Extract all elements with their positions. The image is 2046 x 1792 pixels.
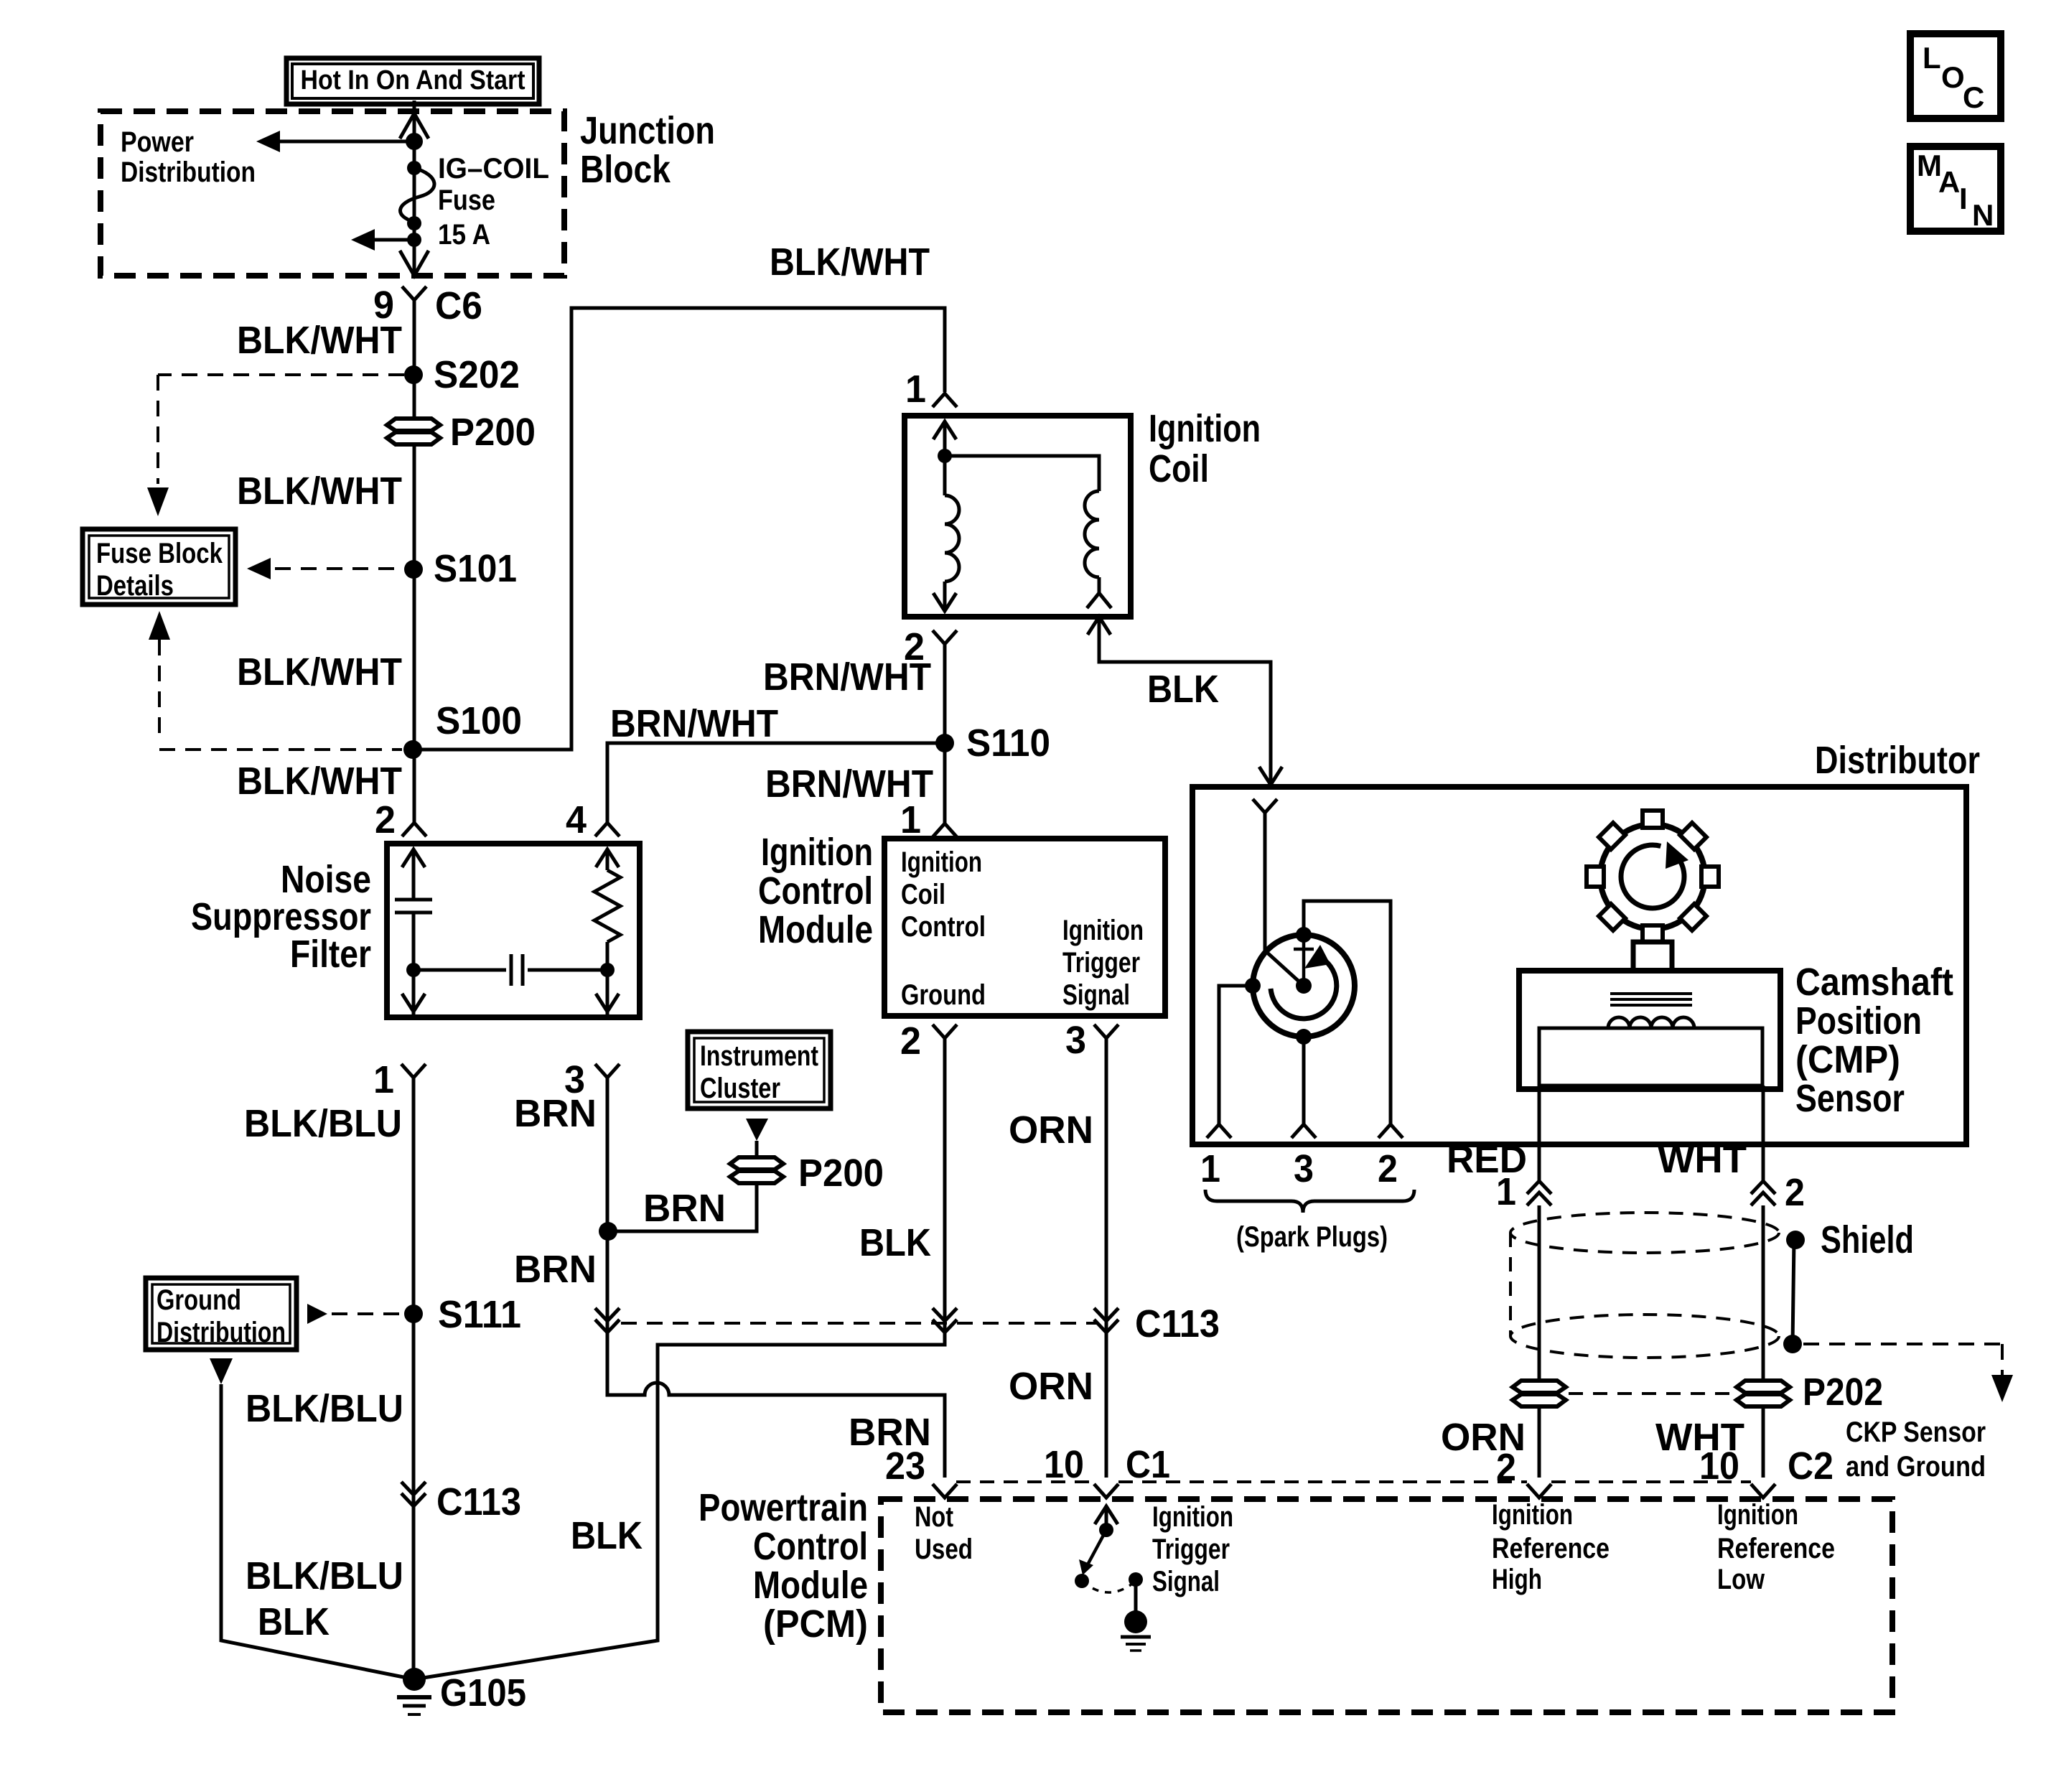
svg-text:BRN: BRN bbox=[514, 1248, 597, 1291]
svg-text:Control: Control bbox=[758, 869, 873, 913]
wire BRN/WHT S110 to filter pin 4 bbox=[607, 743, 945, 823]
svg-text:Shield: Shield bbox=[1821, 1218, 1914, 1261]
svg-text:BLK: BLK bbox=[571, 1514, 643, 1557]
arrow down CKP sensor and ground bbox=[1991, 1375, 2013, 1402]
svg-text:C113: C113 bbox=[436, 1480, 521, 1523]
svg-text:S202: S202 bbox=[434, 353, 520, 396]
svg-text:BLK/WHT: BLK/WHT bbox=[237, 470, 402, 513]
svg-text:Not: Not bbox=[915, 1501, 953, 1533]
wire to PCM internal ground bbox=[1134, 1579, 1138, 1611]
coil primary winding bbox=[945, 495, 959, 582]
arrow to Power Distribution bbox=[256, 131, 280, 152]
wire BLK/WHT C6 to S202 bbox=[413, 300, 416, 419]
svg-text:BRN/WHT: BRN/WHT bbox=[610, 702, 778, 745]
filter internal arrow up pin 4 bbox=[596, 849, 619, 867]
svg-text:(PCM): (PCM) bbox=[763, 1602, 868, 1646]
svg-text:Trigger: Trigger bbox=[1062, 947, 1140, 979]
svg-text:Coil: Coil bbox=[901, 879, 945, 910]
distributor box bbox=[1192, 787, 1966, 1144]
rotor circle bbox=[1253, 935, 1355, 1037]
shield cylinder left wall dashed bbox=[1509, 1233, 1512, 1336]
wire BLK/BLU filter pin 1 down to G105 bbox=[412, 1078, 416, 1679]
svg-text:P200: P200 bbox=[450, 411, 536, 454]
svg-text:BLK: BLK bbox=[859, 1221, 931, 1264]
svg-text:Control: Control bbox=[901, 911, 986, 943]
fork spark plug terminal 1 bbox=[1207, 1124, 1231, 1138]
connector C113 chevrons on BRN wire bbox=[595, 1308, 620, 1321]
svg-text:Ignition: Ignition bbox=[1717, 1499, 1798, 1531]
arrow down to power distribution detail bbox=[147, 487, 169, 516]
ignition coil box bbox=[905, 416, 1131, 617]
svg-text:and Ground: and Ground bbox=[1846, 1451, 1986, 1483]
arrow from Instrument Cluster down bbox=[746, 1119, 768, 1141]
fork spark plug terminal 3 bbox=[1291, 1124, 1316, 1138]
connector C113 on left wire bbox=[401, 1482, 426, 1495]
svg-text:2: 2 bbox=[1785, 1171, 1805, 1214]
arrow from Ground Distribution box down bbox=[210, 1358, 233, 1384]
svg-text:2: 2 bbox=[1378, 1147, 1398, 1190]
svg-text:Module: Module bbox=[753, 1564, 868, 1607]
coil secondary fork terminal bbox=[1087, 593, 1111, 608]
svg-text:Ground: Ground bbox=[901, 979, 986, 1011]
svg-text:3: 3 bbox=[1294, 1147, 1314, 1190]
svg-text:Power: Power bbox=[121, 126, 194, 158]
pass-through connector P202 right bbox=[1737, 1381, 1790, 1393]
svg-text:Signal: Signal bbox=[1062, 979, 1130, 1011]
svg-text:Ignition: Ignition bbox=[1492, 1499, 1573, 1531]
series capacitor in filter bbox=[414, 969, 506, 972]
svg-text:CKP Sensor: CKP Sensor bbox=[1846, 1417, 1986, 1448]
fuse IG-COIL 15A bbox=[407, 161, 421, 175]
ground G105 bbox=[403, 1668, 426, 1691]
svg-text:N: N bbox=[1972, 198, 1994, 232]
dashed link Fuse Block Details to S100 bbox=[149, 611, 170, 640]
svg-text:1: 1 bbox=[1496, 1170, 1516, 1213]
label box Instrument Cluster bbox=[688, 1032, 831, 1109]
svg-text:ORN: ORN bbox=[1009, 1109, 1093, 1152]
pass-through connector P202 left bbox=[1513, 1381, 1566, 1393]
svg-text:4: 4 bbox=[566, 798, 587, 841]
dashed arrow Ground Distribution to S111 bbox=[307, 1304, 327, 1324]
wire pin2 down to P202 bbox=[1762, 1205, 1765, 1381]
CMP inner rectangle bbox=[1539, 1028, 1762, 1086]
svg-text:P202: P202 bbox=[1803, 1371, 1883, 1414]
connector fork filter pin 1 bbox=[401, 1064, 426, 1078]
node power distribution tap bbox=[406, 133, 423, 150]
svg-text:S110: S110 bbox=[966, 722, 1050, 765]
svg-text:Sensor: Sensor bbox=[1795, 1077, 1905, 1120]
gear rotation arc with arrow bbox=[1621, 845, 1684, 908]
filter internal junction right bbox=[600, 963, 615, 977]
svg-text:G105: G105 bbox=[440, 1671, 526, 1714]
svg-text:Cluster: Cluster bbox=[700, 1073, 780, 1104]
CMP core lines bbox=[1610, 992, 1692, 995]
splice S202 bbox=[404, 365, 423, 384]
svg-text:Coil: Coil bbox=[1149, 447, 1209, 490]
shield bottom dot bbox=[1783, 1335, 1802, 1353]
svg-text:Instrument: Instrument bbox=[700, 1040, 818, 1072]
svg-text:1: 1 bbox=[373, 1058, 394, 1101]
MAIN reference box bbox=[1910, 146, 2001, 231]
arrow to Fuse Block Details bbox=[351, 229, 375, 251]
svg-text:2: 2 bbox=[1496, 1446, 1516, 1489]
svg-text:Suppressor: Suppressor bbox=[191, 895, 371, 938]
switch blade with arrowhead bbox=[1086, 1530, 1106, 1567]
connector C113 chevrons on ORN wire bbox=[1094, 1308, 1118, 1321]
filter internal arrow down pin 3 bbox=[596, 994, 619, 1012]
connector fork PCM ignition reference low bbox=[1751, 1484, 1775, 1498]
wire to Fuse Block Details arrow bbox=[362, 238, 414, 242]
svg-text:Distribution: Distribution bbox=[121, 157, 256, 188]
svg-text:Ignition: Ignition bbox=[1062, 915, 1144, 946]
svg-text:Filter: Filter bbox=[290, 933, 371, 976]
connector fork PCM pin 23 bbox=[933, 1484, 957, 1498]
wire to Power Distribution arrow bbox=[267, 140, 414, 144]
svg-text:Noise: Noise bbox=[281, 858, 371, 901]
svg-text:(Spark Plugs): (Spark Plugs) bbox=[1236, 1221, 1388, 1253]
svg-text:BLK/BLU: BLK/BLU bbox=[246, 1387, 403, 1430]
connector fork ICM pin 3 bbox=[1094, 1025, 1118, 1038]
wire pin1 down to P202 bbox=[1538, 1205, 1541, 1381]
label box Ground Distribution bbox=[146, 1278, 296, 1350]
wire BLK coil secondary to distributor bbox=[1088, 617, 1111, 635]
svg-text:Ignition: Ignition bbox=[1152, 1501, 1233, 1533]
filter internal arrow down pin 1 bbox=[402, 994, 425, 1012]
svg-text:Junction: Junction bbox=[580, 109, 715, 152]
splice S101 bbox=[404, 560, 423, 579]
connector fork coil pin 2 bbox=[933, 630, 957, 644]
splice on BRN wire bbox=[599, 1222, 617, 1241]
svg-text:2: 2 bbox=[375, 798, 396, 841]
svg-text:C113: C113 bbox=[1135, 1302, 1220, 1345]
svg-text:Signal: Signal bbox=[1152, 1566, 1220, 1597]
wire rotor top to spark plug 2 bbox=[1304, 901, 1391, 1124]
svg-text:C6: C6 bbox=[435, 284, 482, 327]
PCM ignition trigger switch arrow bbox=[1095, 1506, 1118, 1524]
switch pivot dot bbox=[1099, 1523, 1113, 1537]
shield link wire bbox=[1793, 1240, 1794, 1344]
svg-text:BLK/WHT: BLK/WHT bbox=[237, 319, 402, 362]
arrowhead up into Hot box bbox=[400, 113, 429, 139]
distributor cap terminal fork bbox=[1253, 799, 1277, 813]
coil internal junction bbox=[938, 449, 952, 463]
svg-text:Fuse: Fuse bbox=[438, 185, 495, 216]
svg-text:High: High bbox=[1492, 1564, 1542, 1595]
svg-text:BLK/WHT: BLK/WHT bbox=[770, 241, 930, 284]
wire BLK/WHT branch S100 to ignition coil pin 1 bbox=[413, 308, 945, 750]
svg-text:P200: P200 bbox=[798, 1152, 884, 1195]
gear to CMP sensor neck bbox=[1633, 942, 1672, 971]
svg-text:Camshaft: Camshaft bbox=[1795, 961, 1953, 1004]
wire rotor left to spark plug 1 bbox=[1219, 986, 1253, 1124]
PCM internal ground symbol bbox=[1124, 1610, 1147, 1633]
svg-text:Used: Used bbox=[915, 1534, 973, 1565]
wire rotor bottom to spark plug 3 bbox=[1302, 1037, 1306, 1124]
svg-text:1: 1 bbox=[1200, 1147, 1220, 1190]
svg-text:IG–COIL: IG–COIL bbox=[438, 153, 549, 185]
splice S100 bbox=[403, 740, 422, 759]
wire WHT CMP right down bbox=[1762, 1086, 1765, 1181]
resistor R in filter bbox=[606, 849, 609, 870]
shield dashed cylinder top ellipse bbox=[1510, 1213, 1779, 1253]
wire P200 to BRN splice bbox=[608, 1183, 757, 1231]
svg-text:S100: S100 bbox=[436, 699, 522, 742]
svg-text:L: L bbox=[1923, 41, 1941, 75]
timing gear bbox=[1600, 824, 1705, 929]
svg-text:BLK/WHT: BLK/WHT bbox=[237, 650, 402, 694]
svg-text:Hot In On And Start: Hot In On And Start bbox=[301, 65, 525, 95]
svg-text:WHT: WHT bbox=[1658, 1138, 1747, 1181]
wire BRN filter pin 3 to PCM pin 23 bbox=[607, 1078, 945, 1478]
svg-text:Details: Details bbox=[96, 570, 174, 602]
svg-text:Reference: Reference bbox=[1492, 1533, 1610, 1564]
rotor rotation arc with arrow bbox=[1271, 958, 1337, 1019]
pass-through connector P200 bbox=[730, 1157, 783, 1170]
wire ORN below P202 bbox=[1538, 1406, 1541, 1478]
svg-text:Distributor: Distributor bbox=[1815, 739, 1980, 782]
svg-text:Distribution: Distribution bbox=[157, 1317, 286, 1348]
coil internal arrow up pin 1 bbox=[933, 421, 956, 439]
svg-text:S111: S111 bbox=[438, 1293, 521, 1336]
svg-text:Ignition: Ignition bbox=[901, 846, 982, 878]
coil internal arrow down pin 2 bbox=[933, 593, 956, 611]
svg-text:2: 2 bbox=[900, 1019, 921, 1063]
rotor left dot bbox=[1245, 978, 1261, 994]
svg-text:Low: Low bbox=[1717, 1564, 1765, 1595]
svg-text:23: 23 bbox=[885, 1445, 925, 1488]
label box Fuse Block Details bbox=[83, 529, 235, 605]
wire WHT below P202 bbox=[1762, 1406, 1765, 1478]
svg-text:BLK/WHT: BLK/WHT bbox=[237, 760, 402, 803]
svg-text:Fuse Block: Fuse Block bbox=[96, 538, 223, 569]
svg-text:Powertrain: Powertrain bbox=[699, 1486, 868, 1529]
svg-text:C: C bbox=[1963, 80, 1984, 114]
svg-text:Ignition: Ignition bbox=[1149, 407, 1261, 450]
arrowhead down into distributor bbox=[1259, 767, 1282, 785]
connector fork coil pin 1 bbox=[933, 393, 957, 407]
svg-text:BLK/BLU: BLK/BLU bbox=[246, 1554, 403, 1597]
dashed line between P202 halves bbox=[1569, 1392, 1734, 1395]
rotor cross tick bbox=[1302, 935, 1306, 986]
connector C113 chevrons on BLK wire bbox=[933, 1308, 957, 1321]
shield dashed cylinder bottom ellipse bbox=[1510, 1315, 1779, 1358]
svg-text:BLK: BLK bbox=[1147, 668, 1219, 711]
svg-text:BRN: BRN bbox=[643, 1187, 726, 1230]
svg-text:Ignition: Ignition bbox=[761, 831, 873, 874]
svg-text:Trigger: Trigger bbox=[1152, 1534, 1230, 1565]
filter internal junction left bbox=[406, 963, 421, 977]
CMP pickup coil bbox=[1608, 1017, 1694, 1028]
svg-text:Ground: Ground bbox=[157, 1284, 241, 1316]
capacitor C in filter bbox=[412, 849, 416, 900]
connector C113 dashed line bbox=[621, 1322, 1098, 1325]
rotor center dot bbox=[1296, 978, 1312, 994]
connector fork PCM ignition reference high bbox=[1527, 1484, 1551, 1498]
connector chevrons CKP pin 2 bbox=[1751, 1181, 1775, 1194]
switch ground contact dot bbox=[1129, 1572, 1143, 1587]
svg-text:Reference: Reference bbox=[1717, 1533, 1835, 1564]
PCM pin row dashed line bbox=[956, 1480, 1094, 1483]
dashed wire shield to CKP ground bbox=[1803, 1343, 2002, 1345]
svg-text:15 A: 15 A bbox=[438, 219, 490, 251]
svg-text:10: 10 bbox=[1044, 1443, 1084, 1486]
connector C6 pin 9 fork bbox=[402, 286, 426, 300]
svg-text:(CMP): (CMP) bbox=[1795, 1038, 1900, 1081]
coil secondary winding bbox=[1085, 491, 1099, 577]
pass-through connector P200 bbox=[387, 419, 440, 431]
svg-text:C2: C2 bbox=[1788, 1445, 1834, 1488]
svg-text:BLK: BLK bbox=[258, 1600, 330, 1643]
switch contact dot bbox=[1075, 1574, 1089, 1588]
wire BLK ICM ground to G105 bbox=[414, 1038, 945, 1679]
svg-text:ORN: ORN bbox=[1009, 1365, 1093, 1408]
svg-text:A: A bbox=[1938, 165, 1960, 199]
rotor top dot bbox=[1296, 927, 1312, 943]
powertrain control module dashed box bbox=[881, 1499, 1892, 1712]
rotor arm bbox=[1265, 951, 1304, 986]
svg-text:1: 1 bbox=[900, 798, 921, 841]
svg-text:BRN/WHT: BRN/WHT bbox=[763, 655, 931, 699]
wire BLK from Ground Distribution to G105 bbox=[221, 1384, 414, 1679]
svg-text:S101: S101 bbox=[434, 547, 517, 590]
arrowhead down to C6 bbox=[400, 251, 429, 276]
wire RED CMP left down bbox=[1538, 1086, 1541, 1181]
svg-text:Module: Module bbox=[758, 908, 873, 951]
dashed arrow S101 to Fuse Block Details bbox=[247, 558, 271, 579]
junction block dashed box bbox=[101, 111, 564, 276]
wire from Hot box through junction block bbox=[413, 101, 416, 276]
svg-text:10: 10 bbox=[1699, 1445, 1739, 1488]
splice S110 bbox=[935, 734, 954, 752]
connector fork PCM pin 10 C1 bbox=[1094, 1484, 1118, 1498]
noise suppressor filter box bbox=[387, 844, 640, 1017]
wire instrument cluster to P200 bbox=[755, 1141, 759, 1157]
svg-text:Position: Position bbox=[1795, 999, 1922, 1042]
wire cap terminal to rotor bbox=[1263, 813, 1267, 951]
coil internal wire to secondary bbox=[945, 456, 1099, 491]
ignition control module box bbox=[884, 839, 1165, 1016]
rotor bottom dot bbox=[1296, 1029, 1312, 1045]
filter internal arrow up pin 2 bbox=[402, 849, 425, 867]
connector fork ICM pin 2 bbox=[933, 1025, 957, 1038]
wire ORN ICM pin 3 to PCM bbox=[1105, 1038, 1108, 1478]
svg-text:1: 1 bbox=[905, 368, 926, 411]
svg-text:Block: Block bbox=[580, 148, 671, 191]
splice S111 bbox=[404, 1305, 423, 1323]
spark plugs brace bbox=[1205, 1190, 1414, 1213]
dashed tap from S202 to Power Distribution sheet bbox=[158, 373, 404, 376]
connector fork filter pin 2 bbox=[402, 823, 426, 836]
LOC reference box bbox=[1910, 34, 2001, 118]
camshaft position sensor box bbox=[1519, 971, 1780, 1089]
node fuse block details tap bbox=[407, 233, 421, 247]
svg-text:I: I bbox=[1959, 182, 1968, 215]
svg-text:Control: Control bbox=[753, 1525, 868, 1568]
connector fork filter pin 3 bbox=[595, 1064, 620, 1078]
fork spark plug terminal 2 bbox=[1378, 1124, 1403, 1138]
wire BRN/WHT coil pin 2 to S110 bbox=[943, 644, 947, 823]
label box "Hot In On And Start" bbox=[286, 58, 539, 104]
shield top dot bbox=[1786, 1231, 1805, 1249]
wire BLK/WHT S202 to S101 bbox=[413, 444, 416, 823]
svg-text:O: O bbox=[1941, 60, 1965, 94]
svg-text:3: 3 bbox=[1065, 1019, 1086, 1062]
connector chevrons CKP pin 1 bbox=[1527, 1181, 1551, 1194]
connector fork ICM pin 1 bbox=[933, 823, 957, 837]
connector fork filter pin 4 bbox=[595, 823, 620, 836]
svg-text:BRN: BRN bbox=[514, 1092, 597, 1135]
svg-text:C1: C1 bbox=[1126, 1443, 1170, 1486]
svg-text:BLK/BLU: BLK/BLU bbox=[244, 1102, 402, 1145]
switch dashed travel arc bbox=[1082, 1581, 1136, 1592]
